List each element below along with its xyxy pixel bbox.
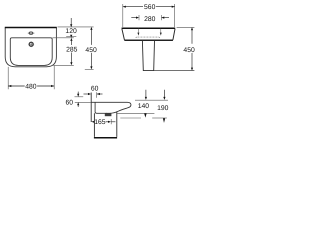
svg-text:560: 560 [144, 4, 156, 11]
svg-text:285: 285 [66, 47, 78, 54]
svg-text:450: 450 [85, 47, 97, 54]
svg-text:120: 120 [65, 28, 77, 35]
svg-text:190: 190 [157, 105, 169, 112]
svg-text:165: 165 [94, 119, 106, 126]
svg-text:140: 140 [138, 103, 150, 110]
svg-text:280: 280 [144, 16, 156, 23]
svg-text:60: 60 [91, 85, 99, 92]
svg-text:480: 480 [25, 83, 37, 90]
svg-text:60: 60 [66, 100, 74, 107]
svg-text:450: 450 [183, 47, 195, 54]
